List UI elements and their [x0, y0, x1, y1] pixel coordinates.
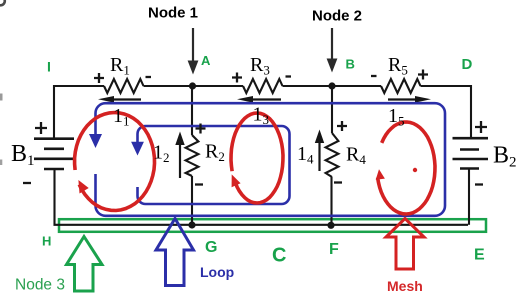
svg-text:Node 2: Node 2 [312, 8, 362, 25]
resistor R5 [381, 79, 421, 93]
R2 + [196, 124, 206, 134]
wire: R4 down to node F [330, 177, 332, 225]
node G dot [188, 221, 195, 228]
wire: B1 bottom to bottom rail [55, 169, 469, 225]
B2 - [475, 183, 483, 185]
inner blue loop rectangle with arrow [131, 126, 289, 204]
wire: B2 bottom to bottom rail [468, 169, 470, 225]
wire: rail R5 to right corner [421, 86, 472, 138]
corner artifact [0, 0, 5, 5]
wire: top rail left segment [54, 79, 471, 225]
green highlight rectangle (node 3 / bottom rail) [59, 219, 486, 232]
svg-text:B1: B1 [11, 141, 35, 169]
svg-text:B: B [346, 57, 355, 72]
svg-text:11: 11 [113, 105, 130, 129]
R5 - [371, 75, 377, 77]
resistor R3 [243, 79, 283, 93]
svg-text:H: H [42, 234, 51, 249]
red mesh ellipse arrow I5 [376, 122, 435, 214]
edge mark 2 [0, 160, 2, 166]
battery B1 plates [34, 139, 74, 169]
wire: rail R1 to node A [144, 85, 244, 87]
Node 2 arrow [327, 28, 338, 73]
svg-text:R5: R5 [388, 54, 408, 78]
battery B2 plates [453, 138, 489, 168]
resistor R1 [104, 79, 144, 93]
R1 - [146, 76, 152, 78]
node B dot [328, 82, 335, 89]
Loop block arrow (blue) [156, 219, 194, 286]
svg-text:I: I [47, 59, 51, 75]
resistor R4 [326, 133, 339, 177]
Mesh block arrow (red) [386, 219, 424, 270]
svg-text:R1: R1 [110, 54, 130, 78]
current arrow I4 (up) [315, 130, 324, 172]
Node 1 arrow [188, 28, 199, 75]
R4 + [337, 121, 347, 131]
svg-text:R2: R2 [205, 141, 225, 165]
resistor R2 [186, 135, 199, 176]
svg-text:14: 14 [297, 143, 314, 167]
svg-text:Loop: Loop [200, 264, 234, 280]
svg-text:A: A [201, 53, 211, 68]
red dot inside I5 ellipse [413, 168, 417, 172]
red mesh ellipse arrow I3 [231, 113, 283, 203]
R2 - [195, 183, 203, 185]
wire: node A down to R2 [191, 86, 193, 135]
wire: rail R3 to node B [283, 85, 382, 87]
red mesh ellipse arrow I1 [75, 113, 155, 211]
node F dot [327, 222, 334, 229]
polarity signs (drawn) [23, 70, 487, 185]
svg-text:B2: B2 [493, 143, 517, 171]
R4 - [334, 181, 342, 183]
svg-text:F: F [329, 241, 339, 258]
svg-text:12: 12 [153, 142, 170, 166]
B1 - [23, 182, 31, 184]
R3 - [286, 75, 292, 77]
svg-text:R3: R3 [250, 54, 270, 78]
current arrow under R3 (left) [237, 96, 281, 103]
outer blue loop rectangle with arrow [89, 103, 445, 216]
svg-text:E: E [474, 247, 485, 264]
svg-text:15: 15 [388, 105, 405, 129]
current arrow I2 (up) [175, 132, 184, 179]
B1 + [35, 122, 47, 134]
svg-text:D: D [462, 56, 473, 73]
edge mark [0, 94, 3, 101]
svg-text:G: G [205, 239, 217, 256]
svg-text:R4: R4 [346, 144, 366, 168]
R3 + [232, 73, 242, 83]
wire: R2 down to node G [191, 176, 193, 225]
node A dot [189, 82, 196, 89]
svg-text:Node 1: Node 1 [148, 5, 198, 22]
current arrow under R1 (left) [98, 96, 141, 103]
B2 + [475, 121, 487, 133]
svg-text:Node 3: Node 3 [15, 277, 65, 294]
current arrow under R5 (right) [388, 96, 431, 103]
Node 3 block arrow (green) [67, 237, 103, 292]
R1 + [94, 73, 104, 83]
svg-text:Mesh: Mesh [387, 278, 423, 294]
svg-text:13: 13 [253, 104, 270, 128]
wire: node B down to R4 [331, 86, 333, 133]
svg-text:C: C [272, 245, 286, 267]
R5 + [418, 70, 428, 80]
